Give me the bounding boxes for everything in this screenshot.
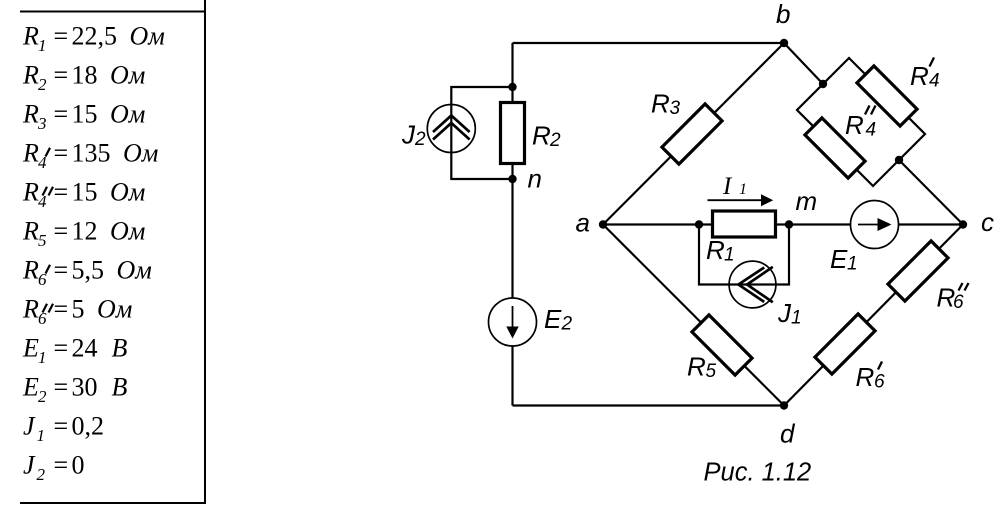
svg-text:1: 1 <box>739 181 747 198</box>
value label E1 = 24 В <box>22 333 128 367</box>
wire J1 loop <box>699 225 789 285</box>
resistor R3 <box>662 104 722 164</box>
svg-text:E: E <box>22 372 39 401</box>
svg-text:R: R <box>687 352 706 382</box>
current source J1 <box>729 261 776 308</box>
svg-text:135: 135 <box>72 138 111 167</box>
svg-text:5: 5 <box>72 294 85 323</box>
value label E2 = 30 В <box>22 372 128 406</box>
svg-text:=: = <box>54 411 69 440</box>
svg-text:Ом: Ом <box>117 255 152 284</box>
node a <box>599 220 607 228</box>
label R6' <box>856 362 886 393</box>
wire left vertical rail <box>511 43 513 406</box>
svg-text:=: = <box>54 138 69 167</box>
resistor R6'' <box>888 241 948 301</box>
svg-text:1: 1 <box>791 308 802 329</box>
wire lower branch R4'' <box>797 84 899 186</box>
wire b to node L <box>784 43 823 84</box>
svg-text:J: J <box>401 119 416 149</box>
label E2 <box>544 304 573 335</box>
svg-text:R: R <box>22 294 39 323</box>
svg-text:22,5: 22,5 <box>72 21 118 50</box>
svg-text:R: R <box>22 255 39 284</box>
label R1 <box>706 235 735 266</box>
value label R6'' = 5 Ом <box>22 294 132 328</box>
node n <box>508 175 516 183</box>
svg-text:30: 30 <box>72 372 98 401</box>
label R4'' <box>845 106 876 141</box>
resistor R4'' <box>805 118 865 178</box>
svg-text:m: m <box>796 186 818 216</box>
label R6'' <box>937 283 969 314</box>
resistor R4' <box>857 66 917 126</box>
wire a to d diagonal <box>603 225 784 406</box>
svg-text:В: В <box>112 333 128 362</box>
svg-text:a: a <box>576 208 590 238</box>
svg-text:2: 2 <box>38 75 47 94</box>
value label R4'' = 15 Ом <box>22 177 145 211</box>
resistor R5 <box>692 315 752 375</box>
svg-text:R: R <box>22 99 39 128</box>
resistor R2 <box>501 103 525 164</box>
label I1 <box>722 173 747 200</box>
svg-text:=: = <box>54 177 69 206</box>
label R4' <box>910 58 940 92</box>
svg-text:2: 2 <box>38 387 47 406</box>
svg-text:15: 15 <box>72 177 98 206</box>
svg-text:1: 1 <box>847 254 858 275</box>
svg-text:J: J <box>777 298 792 328</box>
svg-text:R: R <box>856 362 875 392</box>
svg-text:R: R <box>22 21 39 50</box>
svg-text:5,5: 5,5 <box>72 255 105 284</box>
value label R1 = 22,5 Ом <box>22 21 165 55</box>
node L junction left of R4 pair <box>819 80 827 88</box>
svg-text:=: = <box>54 255 69 284</box>
svg-text:15: 15 <box>72 99 98 128</box>
emf source E2 <box>489 298 537 346</box>
label R2 <box>532 121 561 152</box>
svg-text:6: 6 <box>953 292 964 313</box>
svg-text:1: 1 <box>38 348 47 367</box>
wire main horizontal a-m-c <box>603 223 963 225</box>
svg-text:R: R <box>22 138 39 167</box>
value label R5 = 12 Ом <box>22 216 145 250</box>
svg-text:1: 1 <box>38 36 47 55</box>
svg-text:Рис. 1.12: Рис. 1.12 <box>704 459 812 487</box>
wire J2 branch <box>451 87 512 179</box>
svg-text:1: 1 <box>37 426 46 445</box>
svg-text:E: E <box>22 333 39 362</box>
svg-text:6: 6 <box>874 372 885 393</box>
value label R4' = 135 Ом <box>22 138 158 172</box>
parameter table border <box>20 0 206 504</box>
svg-text:b: b <box>776 0 790 29</box>
svg-text:4: 4 <box>866 120 877 141</box>
svg-text:12: 12 <box>72 216 98 245</box>
svg-text:J: J <box>23 411 36 440</box>
svg-text:24: 24 <box>72 333 98 362</box>
svg-text:4: 4 <box>929 71 940 92</box>
svg-text:2: 2 <box>414 129 426 150</box>
svg-text:3: 3 <box>37 114 47 133</box>
svg-text:Ом: Ом <box>130 21 165 50</box>
resistor R6' <box>815 314 875 374</box>
svg-text:R: R <box>532 121 551 151</box>
node R junction right of R4 pair <box>895 156 903 164</box>
wire a to b diagonal <box>603 43 784 225</box>
value label R6' = 5,5 Ом <box>22 255 152 289</box>
svg-text:E: E <box>830 244 848 274</box>
svg-text:R: R <box>910 61 929 91</box>
node b <box>780 39 788 47</box>
svg-text:n: n <box>528 164 542 194</box>
svg-text:=: = <box>54 294 69 323</box>
svg-text:Ом: Ом <box>110 99 145 128</box>
svg-text:d: d <box>780 419 796 449</box>
wire upper branch R4' <box>823 58 925 160</box>
svg-text:В: В <box>112 372 128 401</box>
node junction left of R1 <box>695 220 703 228</box>
value label R3 = 15 Ом <box>22 99 145 133</box>
node junction top of R2 <box>508 83 516 91</box>
svg-text:5: 5 <box>38 231 47 250</box>
svg-text:=: = <box>54 372 69 401</box>
svg-text:R: R <box>651 89 670 119</box>
label E1 <box>830 244 858 275</box>
svg-text:R: R <box>706 235 725 265</box>
label R3 <box>651 89 681 120</box>
node d <box>780 401 788 409</box>
svg-text:=: = <box>54 333 69 362</box>
svg-text:0,2: 0,2 <box>72 411 105 440</box>
svg-text:=: = <box>54 99 69 128</box>
svg-text:2: 2 <box>561 314 573 335</box>
svg-text:2: 2 <box>549 130 561 151</box>
svg-text:=: = <box>54 60 69 89</box>
svg-text:0: 0 <box>72 450 85 479</box>
value label J2 = 0 <box>23 450 85 484</box>
svg-text:18: 18 <box>72 60 98 89</box>
svg-text:E: E <box>544 304 562 334</box>
svg-text:1: 1 <box>724 245 735 266</box>
wire node R to c <box>899 160 963 225</box>
svg-text:R: R <box>22 177 39 206</box>
emf source E1 <box>851 201 899 249</box>
wire top b rail <box>513 42 785 44</box>
svg-text:Ом: Ом <box>110 60 145 89</box>
svg-text:Ом: Ом <box>123 138 158 167</box>
svg-text:R: R <box>845 110 864 140</box>
wire d to c diagonal <box>784 225 963 406</box>
svg-text:R: R <box>22 60 39 89</box>
wire bottom rail <box>513 404 785 406</box>
svg-text:=: = <box>54 450 69 479</box>
current arrow I1 <box>708 194 774 206</box>
value label R2 = 18 Ом <box>22 60 145 94</box>
label J1 <box>777 298 802 329</box>
svg-text:Ом: Ом <box>110 177 145 206</box>
svg-text:=: = <box>54 21 69 50</box>
label J2 <box>401 119 426 150</box>
svg-text:c: c <box>981 207 994 237</box>
resistor R1 <box>713 211 776 237</box>
value label J1 = 0,2 <box>23 411 104 445</box>
svg-text:J: J <box>23 450 36 479</box>
label R5 <box>687 352 717 383</box>
svg-text:Ом: Ом <box>110 216 145 245</box>
svg-text:5: 5 <box>706 361 717 382</box>
svg-text:2: 2 <box>37 465 46 484</box>
svg-text:R: R <box>22 216 39 245</box>
current source J2 <box>427 105 475 153</box>
node m <box>785 220 793 228</box>
svg-text:I: I <box>722 173 733 200</box>
node c <box>959 220 967 228</box>
svg-text:=: = <box>54 216 69 245</box>
svg-text:3: 3 <box>670 98 681 119</box>
svg-text:Ом: Ом <box>97 294 132 323</box>
